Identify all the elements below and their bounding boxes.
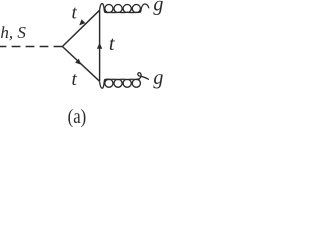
svg-text:(a): (a) [68, 106, 87, 128]
arrow on top quark line (pointing to lower-left) [79, 19, 85, 25]
top gluon line (curly, to upper right) [100, 4, 149, 13]
top quark line t (left vertex to top-right vertex) [62, 10, 99, 46]
svg-text:t: t [71, 69, 77, 90]
arrow on bottom quark line (pointing to lower-right) [75, 59, 81, 65]
svg-text:g: g [153, 67, 163, 89]
svg-text:t: t [72, 2, 78, 23]
bottom quark line t (left vertex to bottom-right vertex) [62, 47, 99, 82]
bottom gluon line (curly, to lower right) [100, 73, 149, 89]
scalar propagator h/S (dashed line) [0, 46, 62, 48]
right quark line t (vertical, from bottom-right vertex up to top-right vertex) [99, 10, 101, 81]
svg-text:t: t [109, 33, 116, 55]
arrow on right quark line (pointing up) [97, 43, 102, 49]
svg-text:g: g [153, 0, 163, 16]
svg-text:h, S: h, S [0, 23, 26, 42]
